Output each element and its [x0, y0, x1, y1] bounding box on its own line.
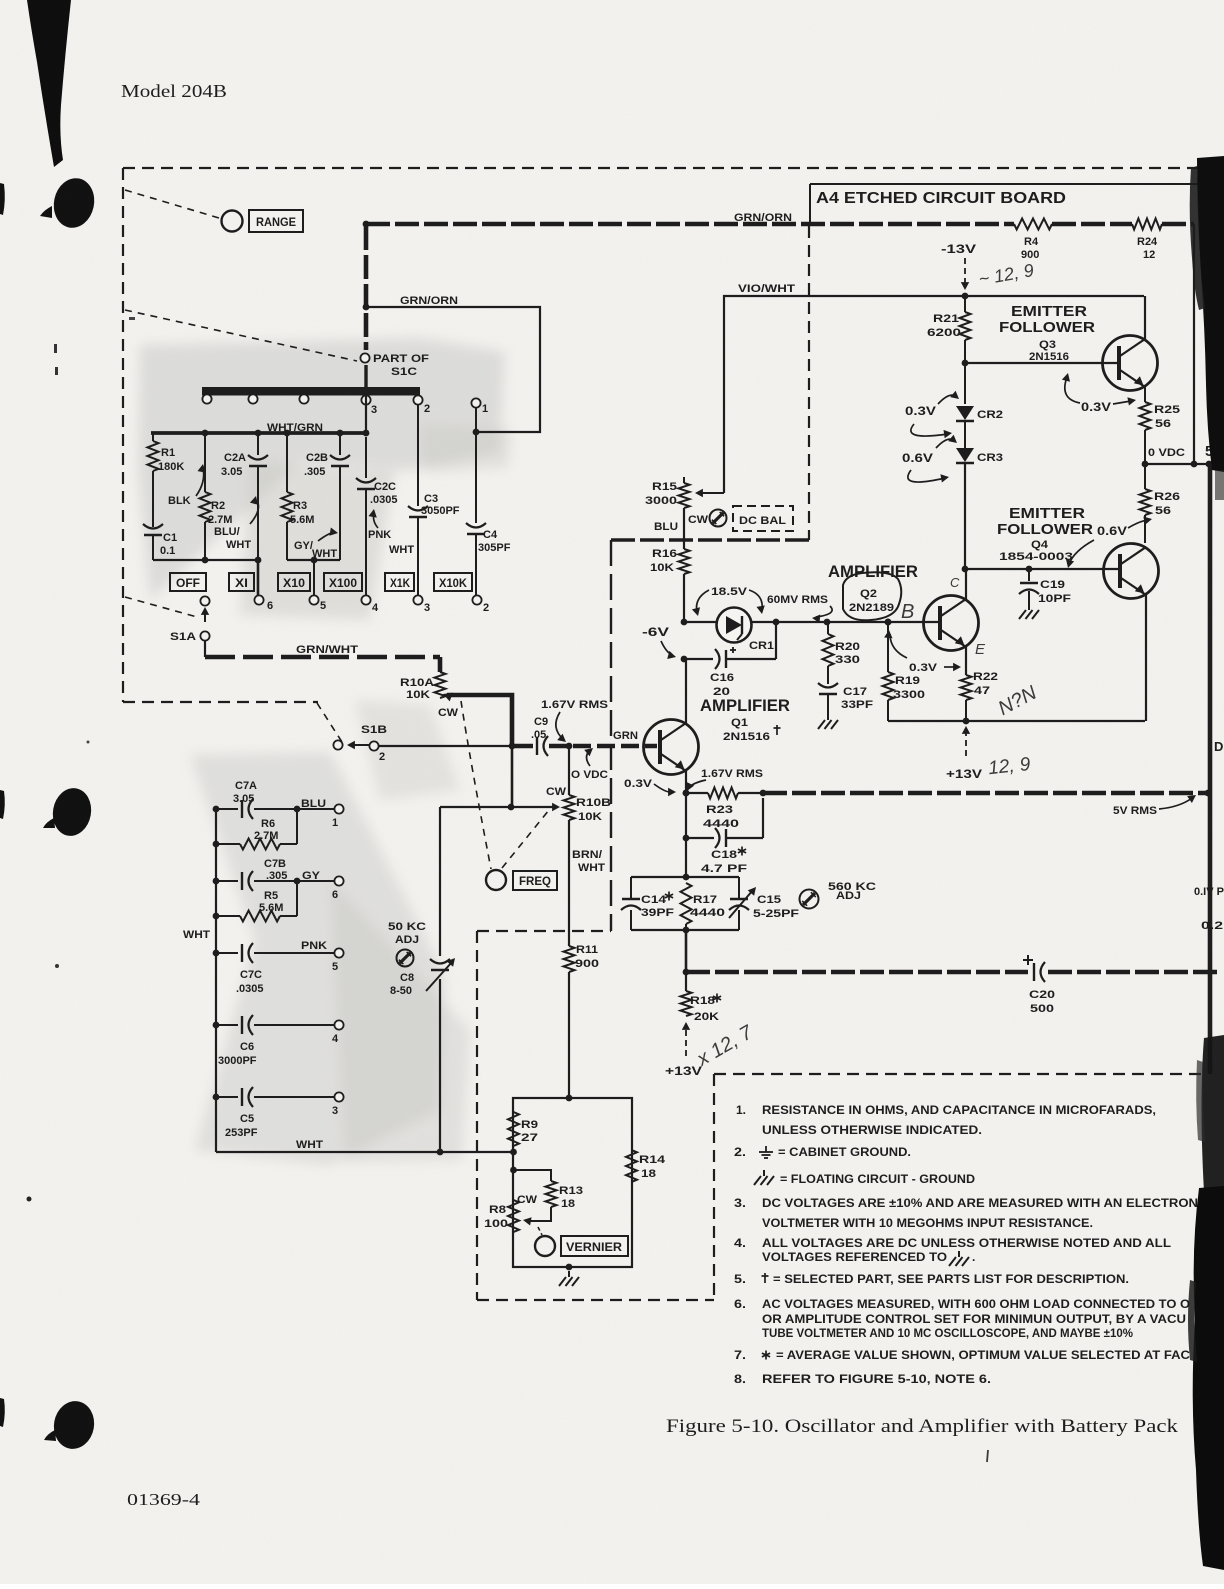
wire R15 wiper — [695, 489, 724, 497]
switch contact 5 — [309, 595, 326, 612]
resistor R14 — [626, 1150, 666, 1182]
label BLK with arrow — [168, 464, 206, 507]
FREQ knob circle — [486, 870, 506, 890]
capacitor C5 — [213, 1087, 334, 1139]
resistor R6 — [213, 809, 297, 850]
switch contact 2 lower — [472, 595, 489, 614]
handwritten x12.7 — [692, 1021, 757, 1071]
note 6 — [734, 1297, 1190, 1340]
wire contact3 to bus — [363, 396, 370, 436]
resistor R25 — [1140, 387, 1181, 464]
ground floating vernier — [559, 1264, 579, 1286]
vernier network box — [513, 1095, 632, 1267]
capacitor C7A — [213, 780, 334, 819]
note 8 — [734, 1372, 991, 1386]
transistor Q1 — [644, 720, 699, 775]
board boundary x611 long-dash — [610, 540, 612, 931]
capacitor C2B — [304, 430, 350, 560]
switch wafer contact 2 — [413, 395, 430, 415]
label CW R8 — [517, 1194, 538, 1206]
gray scan stain upper switch area — [138, 338, 512, 620]
wire WHT bottom — [216, 1139, 513, 1155]
wire R24 to right corner — [1162, 224, 1194, 464]
linkage dashed border to S1A — [125, 597, 197, 617]
wire VIO/WHT — [724, 283, 1144, 493]
transistor Q2 — [924, 596, 979, 651]
label GY/WHT with arrow — [294, 528, 338, 561]
tank circuit rails — [631, 877, 739, 933]
diode CR1 — [717, 608, 775, 653]
label PNK WHT with arrow — [368, 509, 414, 556]
wire GRN/ORN branch label — [400, 295, 458, 307]
fragment 5 right edge — [1205, 443, 1213, 460]
switch contact 6 — [254, 595, 273, 612]
note 3 — [734, 1196, 1198, 1230]
capacitor C4 — [466, 407, 511, 596]
page number 01369-4 — [127, 1490, 201, 1509]
wire Q2 collector — [965, 569, 967, 599]
board boundary y1074 dashed — [714, 1073, 1208, 1075]
wire GRN/WHT heavy — [205, 644, 440, 657]
label 60MV RMS with arrow — [767, 594, 832, 623]
scan artifact right edge top band — [1190, 156, 1224, 500]
board boundary segment y540 dashed — [611, 538, 809, 542]
board boundary y931 dashed — [477, 930, 611, 932]
switch contact 4 — [361, 595, 379, 614]
trimmer capacitor C15 — [729, 877, 799, 930]
label +13V arrow R18 — [665, 1022, 702, 1078]
note 2 cabinet ground — [734, 1145, 911, 1159]
range position label X10 — [278, 573, 310, 591]
resistor R11 — [564, 944, 600, 1098]
wire C20 heavy dashed — [686, 970, 1218, 975]
wire contact6 drop — [257, 560, 260, 596]
note 2 floating ground — [754, 1170, 975, 1186]
resistor R24 inline — [1132, 219, 1162, 262]
DC BAL dashed box — [733, 506, 793, 531]
resistor R16 — [650, 508, 690, 622]
range position label X100 — [324, 573, 362, 591]
wire S1B to C9 — [379, 743, 515, 750]
label 1.67V RMS input — [541, 699, 608, 742]
label BRN/WHT — [572, 849, 605, 874]
capacitor C7B — [213, 858, 334, 891]
capacitor C6 — [213, 1015, 334, 1067]
page header Model 204B — [121, 81, 227, 101]
wire WHT/GRN bus — [151, 422, 368, 434]
resistor R20 — [823, 623, 861, 684]
handwritten E — [975, 641, 986, 658]
board boundary y1300 dashed — [477, 1299, 714, 1301]
potentiometer R8 — [484, 1200, 519, 1232]
label 0.3V CR2 with arrows — [905, 391, 959, 439]
scan artifact top-left wedge — [27, 0, 71, 167]
FREQ label box — [513, 871, 557, 890]
label +13V arrow Q2 — [946, 726, 982, 781]
wire GRN/ORN vertical to switch — [363, 221, 370, 390]
capacitor C7C — [213, 943, 334, 995]
switch wafer contact 3 — [361, 395, 377, 416]
resistor R17 — [681, 883, 726, 930]
wire Q1 emitter column — [683, 793, 690, 880]
wire Q4 collector — [1145, 515, 1147, 547]
label -6V with arrow — [642, 627, 676, 659]
wire contact5 drop — [313, 560, 315, 596]
wire Q4 base — [965, 568, 1120, 570]
potentiometer R10B — [564, 746, 612, 946]
wire R3 C2B bottom rail — [287, 557, 340, 564]
wire tank to C20 node — [683, 930, 690, 975]
fragment 0.1V right edge — [1194, 886, 1224, 898]
note 1 — [736, 1103, 1156, 1137]
scan artifact right edge bottom band — [1188, 1186, 1224, 1570]
handwritten C — [950, 575, 960, 590]
wire GRN/ORN top heavy dashed — [366, 222, 1014, 227]
scan artifact hole blob 2 — [0, 785, 95, 839]
RANGE knob circle — [222, 211, 243, 232]
node S1B contact 5 — [301, 940, 344, 973]
range position label X1K — [385, 573, 414, 591]
handwritten 12.9 mid — [987, 754, 1032, 779]
board boundary right of VIO/WHT dashed — [808, 226, 810, 540]
switch contact 3 lower — [413, 595, 430, 614]
resistor R1 — [148, 433, 185, 527]
label 0.6V CR3 with arrows — [902, 435, 957, 483]
node PART OF S1C contact circle — [360, 353, 429, 378]
label O VDC — [571, 748, 608, 781]
handwritten NPN — [995, 682, 1041, 720]
wire R10B wiper — [440, 803, 560, 811]
label WHT left — [183, 929, 210, 941]
diode CR2 — [956, 406, 1003, 421]
curved arrow R19 node — [884, 630, 907, 658]
capacitor C17 — [818, 683, 873, 714]
resistor R5 — [213, 881, 297, 922]
trimmer capacitor C8 — [390, 958, 455, 997]
range position label X10K — [434, 573, 472, 591]
wire BLU — [654, 521, 678, 533]
scan artifact hole blob 1 — [0, 174, 99, 231]
wire R10A wiper heavy — [443, 693, 512, 807]
resistor R10A — [400, 657, 446, 701]
wire between R4 and R24 — [1052, 222, 1132, 227]
label 0 VDC — [1148, 447, 1185, 459]
resistor R22 — [961, 671, 999, 721]
label CW R15 and screw DC BAL — [688, 510, 727, 527]
vernier knob circle — [535, 1227, 555, 1256]
capacitor C1 — [143, 524, 177, 560]
transistor Q4 — [1104, 544, 1159, 599]
label -13V with arrow — [941, 244, 976, 290]
handwritten mark bottom — [987, 1450, 988, 1462]
label 18.5V with arrows — [692, 586, 765, 616]
label EMITTER FOLLOWER Q4 — [997, 505, 1093, 563]
wire Q3 collector — [1144, 296, 1146, 339]
linkage dashed S1A to S1B — [317, 703, 342, 742]
resistor R19 — [883, 619, 926, 721]
wire C8 column — [439, 807, 441, 1152]
scan noise overlay — [0, 0, 1, 1]
figure caption — [666, 1416, 1179, 1437]
label 0.3V Q1 — [624, 778, 676, 796]
wire Q1 emitter — [683, 771, 690, 796]
node S1B contact 6 — [302, 870, 344, 901]
note 5 — [734, 1272, 1129, 1286]
label CW R10A — [438, 707, 459, 719]
wire Q1 collector — [685, 659, 687, 723]
screw adjust 50KC — [388, 921, 426, 967]
gray scan stain lower left area — [190, 700, 470, 1165]
wire Q2 emitter to R22 — [965, 647, 967, 675]
wire main node A horizontal — [681, 619, 938, 626]
scan specks — [27, 317, 136, 1202]
capacitor C2C — [356, 437, 398, 596]
ground floating C17 — [818, 714, 838, 729]
capacitor C14 — [621, 877, 674, 930]
linkage dashed FREQ to R10B — [502, 810, 549, 868]
switch wafer contact 1 — [471, 398, 488, 415]
VERNIER label box — [561, 1236, 628, 1256]
label AMPLIFIER Q2 — [828, 562, 918, 614]
wire Q4 emitter — [1145, 595, 1147, 721]
label 0.3V Q2 — [909, 662, 961, 674]
ground floating C19 — [1019, 604, 1039, 619]
wire Q3 base — [962, 360, 1119, 367]
wire WHT into R8 node — [510, 1149, 517, 1156]
capacitor C2A — [221, 430, 268, 560]
screw adjust 560KC — [800, 881, 877, 909]
wire right edge heavy vertical — [1208, 464, 1213, 1074]
wire 0 VDC — [1142, 461, 1213, 468]
label 5V RMS with arrow — [1113, 795, 1196, 817]
amplifier blob around Q2 — [843, 572, 901, 620]
scan artifact hole blob 3 — [0, 1398, 98, 1452]
A4 ETCHED CIRCUIT BOARD label — [816, 190, 1066, 207]
resistor R18 — [681, 972, 722, 1023]
linkage dashed R10A to FREQ — [461, 701, 491, 869]
scan artifact right edge mid band — [1196, 1035, 1224, 1196]
range position label X1 — [229, 573, 254, 591]
label AMPLIFIER Q1 — [700, 696, 790, 743]
switch S1B wiper — [333, 724, 387, 763]
wire CR2 to CR3 — [964, 421, 966, 448]
linkage dashed border to RANGE — [125, 190, 219, 218]
wire CR3 to Q2 collector node — [962, 463, 969, 572]
wire emitter bottom rail — [888, 718, 1145, 725]
label 0.3V Q3 — [1062, 373, 1136, 414]
capacitor C18 — [683, 798, 763, 875]
node S1B contact 4 — [332, 1020, 344, 1045]
switch S1A wiper — [170, 596, 210, 657]
board boundary bottom-left dashed — [123, 701, 318, 703]
board boundary x714 dashed — [713, 1074, 715, 1300]
wire loop contact1 to GRN/ORN bus — [363, 304, 540, 436]
resistor R9 — [508, 1112, 538, 1146]
wire C9 to Q1 base heavy dashed GRN — [549, 730, 657, 749]
note 4 — [734, 1236, 1171, 1266]
resistor R21 — [927, 293, 971, 404]
board boundary left dashed — [122, 168, 124, 702]
label EMITTER FOLLOWER Q3 — [999, 303, 1095, 363]
node S1B contact 3 — [332, 1092, 344, 1117]
RANGE label box — [249, 210, 303, 232]
label 1.67V RMS output — [687, 768, 764, 791]
label CW R10B — [546, 786, 567, 798]
resistor R23 — [683, 788, 767, 831]
capacitor C19 — [1019, 566, 1071, 605]
fragment 0.2 right edge — [1201, 920, 1223, 932]
board boundary x477 dashed — [476, 931, 478, 1300]
label 0.6V Q4 with arrows — [1066, 517, 1152, 569]
potentiometer R15 — [645, 477, 690, 508]
wire lowcap bus vertical — [215, 809, 217, 1152]
range position label OFF — [170, 573, 206, 591]
rotor contact circles — [202, 394, 308, 403]
board boundary top dashed — [123, 167, 1224, 169]
switch S1C rotor bar — [202, 387, 420, 396]
fragment D right edge — [1214, 739, 1223, 754]
resistor R2 — [200, 430, 233, 560]
capacitor C9 — [512, 716, 548, 756]
node S1B contact 1 — [301, 798, 344, 829]
transistor Q3 — [1103, 336, 1158, 391]
label BLU/WHT with arrow — [214, 496, 258, 551]
linkage dashed border to switch wafer — [125, 310, 357, 361]
capacitor C3 — [408, 404, 460, 596]
resistor R26 — [1140, 464, 1181, 543]
resistor R4 inline — [1014, 219, 1052, 262]
diode CR3 — [956, 448, 1003, 464]
note 7 — [734, 1348, 1190, 1362]
resistor R3 — [282, 430, 315, 560]
handwritten -12.9 top — [977, 260, 1035, 289]
handwritten B — [901, 601, 914, 623]
label GRN/ORN top — [734, 212, 792, 224]
resistor R13 loop — [510, 1167, 583, 1226]
wire R1C1 bottom rail — [153, 557, 261, 564]
A4 label box lines — [810, 184, 1224, 226]
capacitor C16 — [681, 622, 776, 698]
wire 5V RMS heavy dashed — [763, 790, 1211, 797]
capacitor C20 — [1023, 955, 1055, 1015]
